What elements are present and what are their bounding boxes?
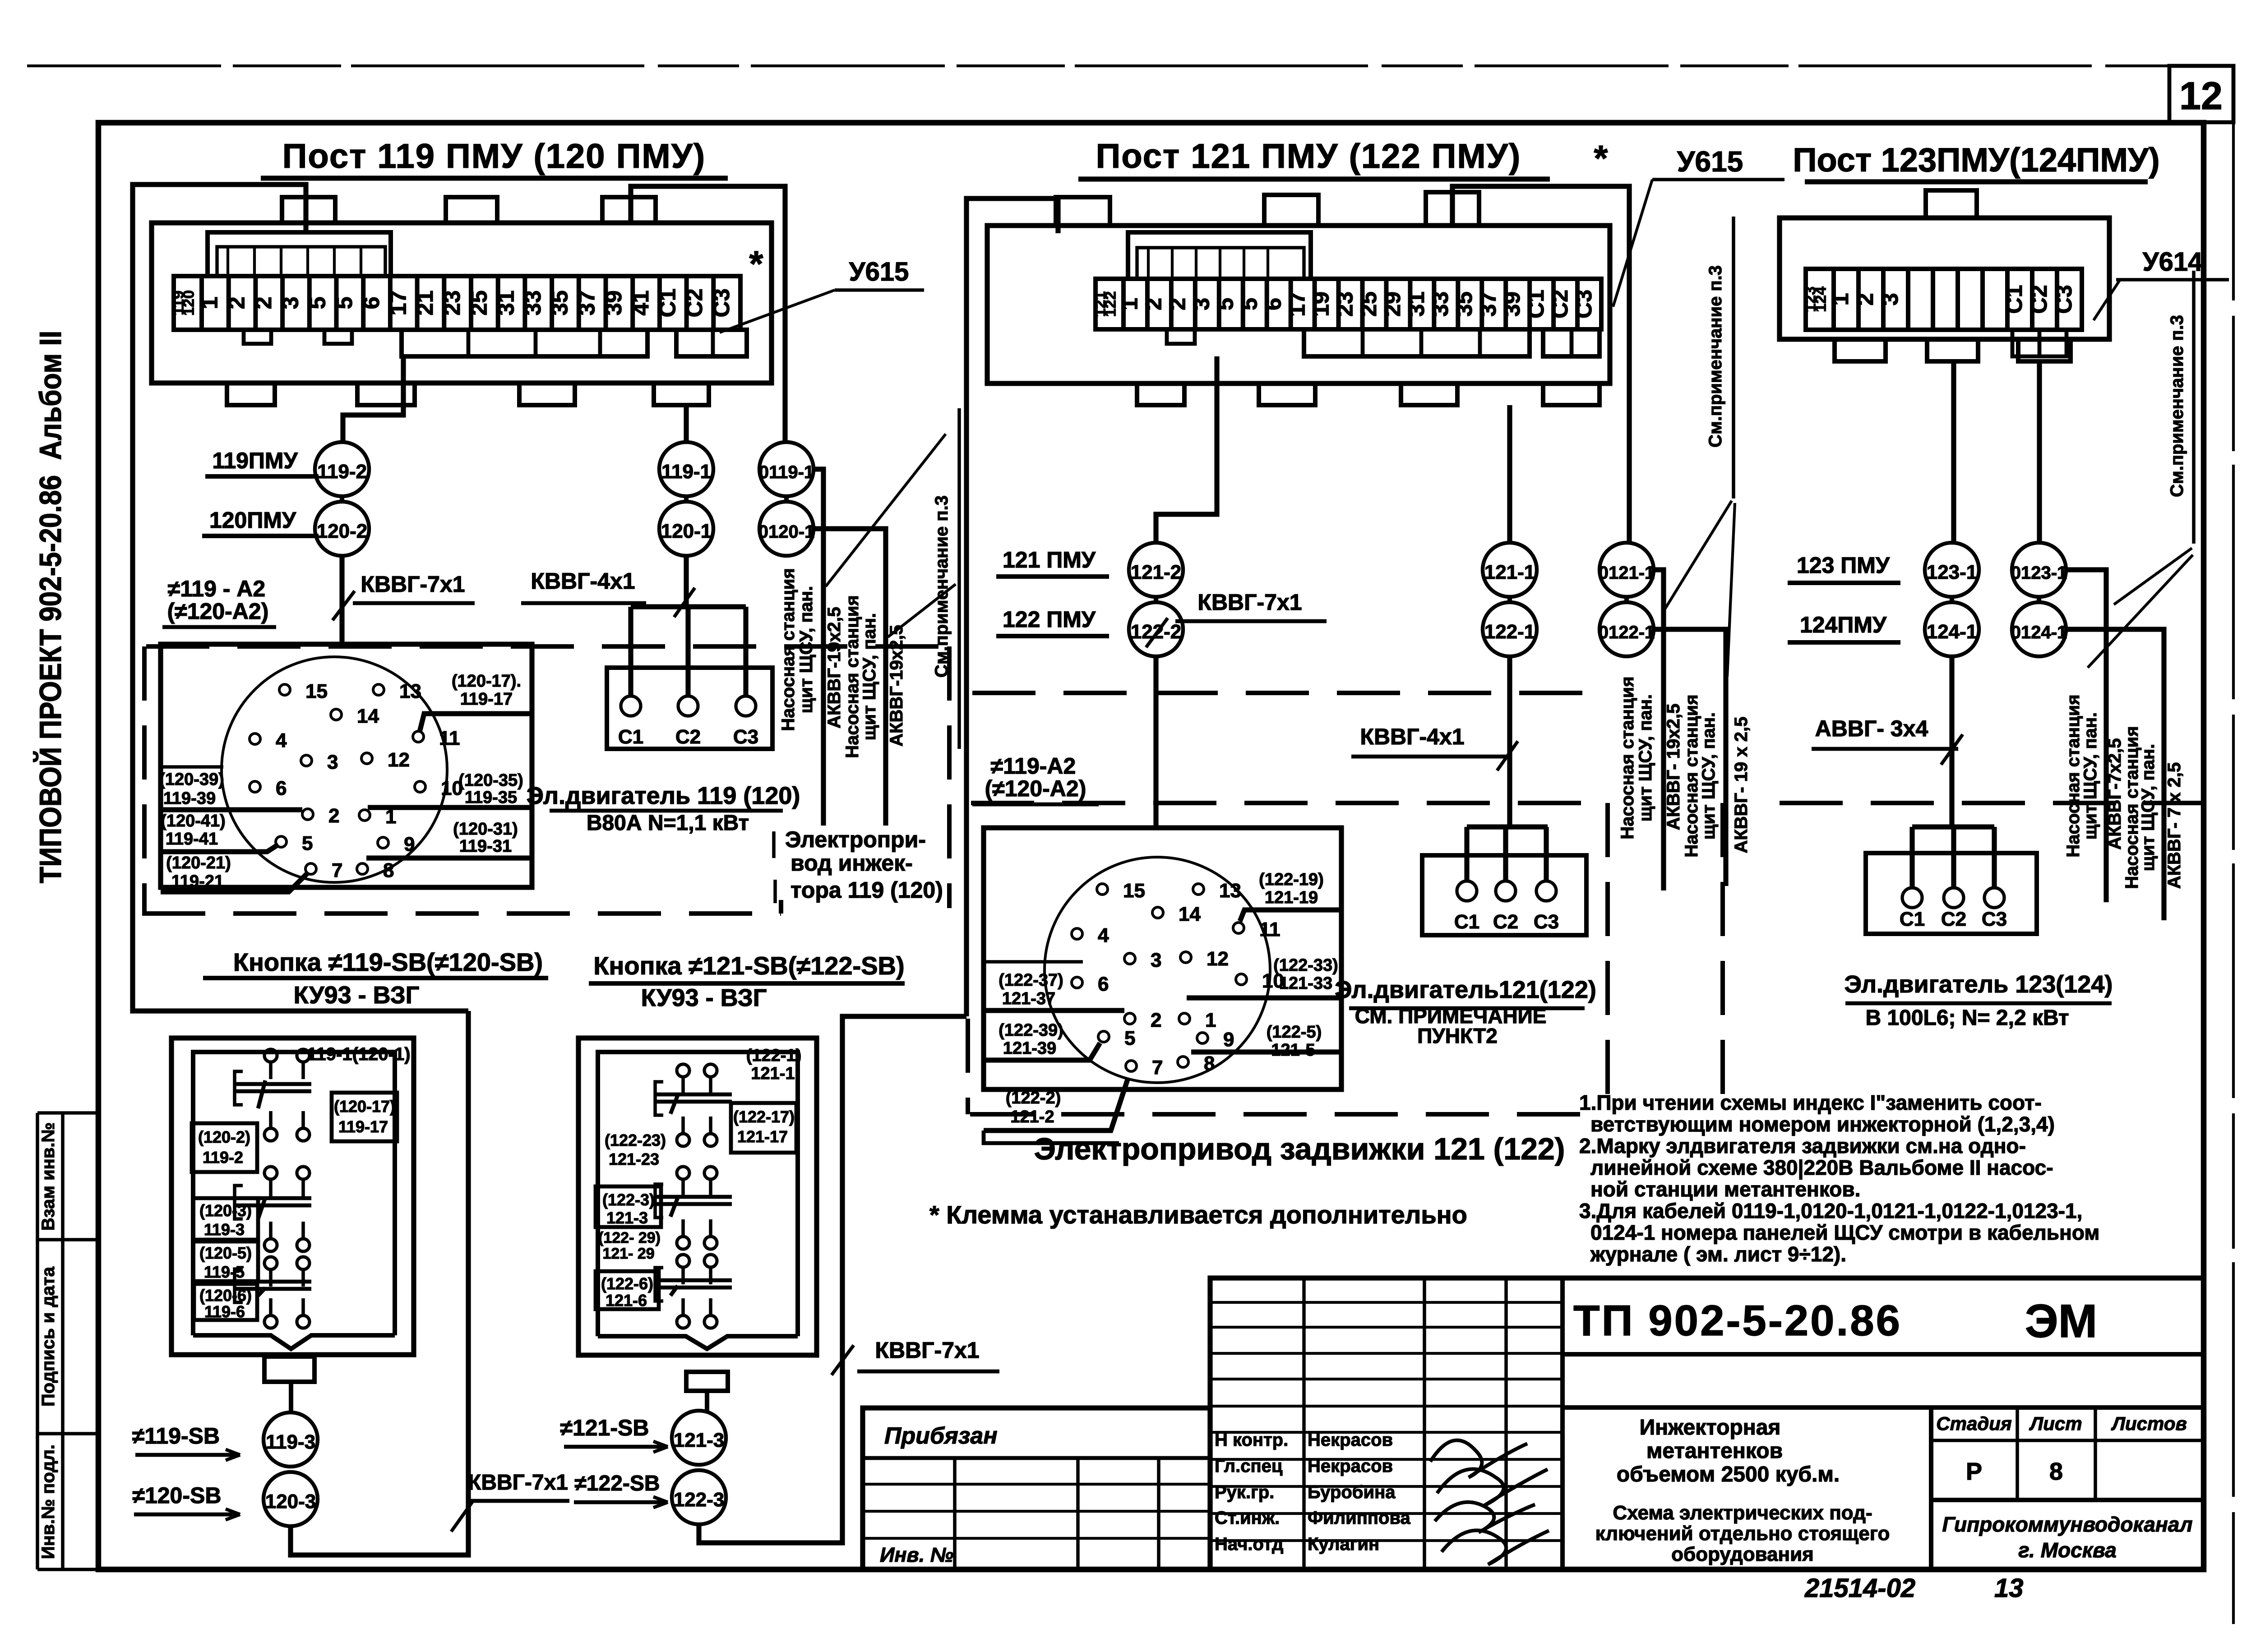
svg-text:119-1: 119-1: [661, 461, 711, 483]
button box mid funnel: [598, 1336, 798, 1349]
svg-text:35: 35: [547, 291, 573, 316]
svg-text:4: 4: [1098, 924, 1109, 946]
svg-text:щит ЩСУ, пан.: щит ЩСУ, пан.: [860, 613, 879, 740]
label U615 left underline: [835, 288, 924, 292]
svg-text:124: 124: [1812, 286, 1830, 312]
svg-text:(120-41): (120-41): [161, 812, 226, 831]
rot rule left 2: [884, 529, 888, 826]
svg-text:29: 29: [1380, 291, 1405, 317]
svg-text:1: 1: [197, 297, 222, 309]
wire 120-2 down: [339, 556, 344, 646]
svg-text:3: 3: [1877, 293, 1903, 306]
svg-text:12: 12: [388, 749, 410, 771]
svg-text:120-2: 120-2: [317, 520, 368, 542]
svg-text:(122-33): (122-33): [1273, 956, 1338, 975]
svg-text:6: 6: [1098, 973, 1109, 995]
svg-text:С1: С1: [1900, 908, 1925, 930]
svg-text:Инв.№ подл.: Инв.№ подл.: [38, 1444, 58, 1559]
svg-text:13: 13: [399, 680, 421, 702]
wire 0119-1 right: [814, 469, 823, 826]
rot rule left 1: [822, 492, 826, 826]
svg-text:2: 2: [1151, 1009, 1161, 1031]
svg-text:Схема электрических под-: Схема электрических под-: [1613, 1502, 1872, 1524]
button box left funnel: [193, 1335, 395, 1349]
svg-text:21514-02: 21514-02: [1804, 1574, 1915, 1603]
svg-text:Пост 121 ПМУ (122 ПМУ): Пост 121 ПМУ (122 ПМУ): [1096, 137, 1521, 175]
svg-text:123-1: 123-1: [1927, 561, 1978, 583]
wire 0121-0122 stub: [1624, 597, 1629, 602]
svg-text:АКВВГ-19х2,5: АКВВГ-19х2,5: [824, 607, 844, 728]
svg-text:КВВГ-4х1: КВВГ-4х1: [531, 568, 635, 594]
circle 0124-1: [2012, 602, 2066, 656]
svg-text:14: 14: [1179, 903, 1201, 925]
svg-text:С3: С3: [1534, 911, 1559, 933]
circle 122-2: [1129, 602, 1183, 656]
svg-text:9: 9: [404, 833, 415, 855]
dashed boundary right left-vert: [1720, 803, 1725, 1117]
svg-text:2: 2: [1141, 298, 1166, 310]
svg-text:щит ЩСУ, пан.: щит ЩСУ, пан.: [2080, 712, 2100, 840]
wire bus left: [631, 604, 746, 609]
dashed boundary right wall: [1780, 801, 2204, 805]
title block verticals: [1302, 1278, 1306, 1569]
svg-text:Кнопка ≠121-SB(≠122-SB): Кнопка ≠121-SB(≠122-SB): [593, 951, 904, 980]
bracket row mid A: [1304, 329, 1530, 356]
bracket row mid B: [1543, 329, 1600, 356]
tab above left 3: [602, 197, 656, 223]
svg-text:Кулагин: Кулагин: [1308, 1534, 1379, 1554]
wire to 121-2: [1156, 356, 1217, 543]
contact group L3: [264, 1257, 277, 1269]
label box 121-17k: [731, 1103, 796, 1153]
svg-text:0124-1 номера панелей ЩСУ смо: 0124-1 номера панелей ЩСУ смотри в кабел…: [1590, 1221, 2099, 1244]
button left foot: [264, 1357, 314, 1382]
stub 121-1 122-1: [1507, 597, 1512, 602]
label box 119-17k: [332, 1093, 397, 1141]
svg-text:ной станции метантенков.: ной станции метантенков.: [1590, 1177, 1860, 1201]
svg-text:35: 35: [1452, 291, 1477, 317]
svg-text:Пост 119 ПМУ (120 ПМУ): Пост 119 ПМУ (120 ПМУ): [282, 137, 706, 175]
svg-text:14: 14: [357, 705, 379, 727]
svg-text:(≠120-А2): (≠120-А2): [985, 776, 1086, 801]
svg-text:метантенков: метантенков: [1646, 1439, 1783, 1463]
svg-text:121-23: 121-23: [609, 1150, 659, 1168]
svg-text:АВВГ- 3х4: АВВГ- 3х4: [1815, 716, 1928, 741]
svg-text:≠122-SB: ≠122-SB: [574, 1472, 660, 1495]
svg-text:0120-1: 0120-1: [758, 522, 815, 542]
svg-text:*: *: [1594, 138, 1608, 178]
svg-text:121-1: 121-1: [1484, 561, 1535, 583]
circle 119-2: [315, 442, 369, 496]
svg-text:объемом 2500 куб.м.: объемом 2500 куб.м.: [1617, 1463, 1840, 1486]
foot left 3: [519, 383, 575, 405]
rot rule sm right: [2192, 271, 2196, 544]
label knopka 121 underline: [589, 981, 905, 986]
svg-text:КВВГ-7х1: КВВГ-7х1: [875, 1338, 979, 1363]
wire 122-3 bottom: [699, 1016, 966, 1543]
circle 121-3: [672, 1411, 726, 1465]
svg-text:КУ93 - ВЗГ: КУ93 - ВЗГ: [641, 984, 767, 1011]
svg-text:≠119 - А2: ≠119 - А2: [168, 576, 265, 601]
svg-text:Листов: Листов: [2111, 1413, 2187, 1434]
motor terminal C2 right: [1944, 888, 1964, 908]
svg-text:122-1: 122-1: [1484, 621, 1535, 643]
wire 119-2 to 120-2: [340, 496, 344, 502]
circle 120-1: [659, 502, 713, 556]
terminal strip X1 mid: [1096, 279, 1601, 329]
stub 0123-1 0124-1: [2037, 597, 2041, 602]
small tab below cell5: [324, 330, 352, 344]
svg-text:5: 5: [1124, 1027, 1135, 1049]
circle 124-1: [1925, 602, 1979, 656]
rot rule mid 1: [1662, 570, 1666, 891]
svg-text:Ст.инж.: Ст.инж.: [1215, 1508, 1280, 1528]
jumper box left outer: [208, 232, 391, 276]
bracket row left B: [676, 330, 747, 356]
foot right 1: [1835, 339, 1886, 361]
svg-text:122-3: 122-3: [674, 1489, 725, 1511]
svg-text:вод инжек-: вод инжек-: [791, 850, 913, 876]
svg-text:ветствующим номером инжекторн: ветствующим номером инжекторной (1,2,3,4…: [1590, 1112, 2055, 1136]
tab above mid 2: [1426, 192, 1479, 226]
svg-text:Пост 123ПМУ(124ПМУ): Пост 123ПМУ(124ПМУ): [1793, 141, 2159, 179]
svg-text:120: 120: [180, 290, 198, 316]
svg-text:119-17: 119-17: [460, 690, 513, 709]
dashed boundary left right-vert: [947, 646, 952, 908]
svg-text:С2: С2: [2026, 285, 2052, 314]
contact group M2: [677, 1167, 689, 1179]
title signatures: [1430, 1440, 1549, 1564]
svg-text:119-31: 119-31: [459, 837, 512, 856]
wire 120-3 bottom: [291, 1011, 468, 1555]
rot rule sm mid: [1732, 217, 1735, 498]
svg-text:37: 37: [1475, 291, 1501, 317]
svg-text:121-17: 121-17: [737, 1127, 788, 1146]
svg-text:Лист: Лист: [2029, 1413, 2082, 1434]
svg-text:121-37: 121-37: [1002, 989, 1055, 1008]
svg-text:ключений отдельно стоящего: ключений отдельно стоящего: [1595, 1523, 1890, 1545]
svg-text:121 ПМУ: 121 ПМУ: [1003, 547, 1096, 572]
wire C-left: [684, 405, 689, 442]
heading post 121 underline: [1078, 176, 1550, 181]
title TP box divider: [1563, 1352, 2204, 1357]
svg-text:119ПМУ: 119ПМУ: [212, 448, 298, 473]
arrow 122-SB: [653, 1497, 668, 1502]
svg-text:ТП 902-5-20.86: ТП 902-5-20.86: [1573, 1297, 1902, 1345]
svg-text:123 ПМУ: 123 ПМУ: [1797, 553, 1890, 578]
svg-text:(122-2): (122-2): [1006, 1089, 1061, 1107]
svg-text:122 ПМУ: 122 ПМУ: [1003, 607, 1096, 632]
sm leader left 2: [888, 584, 956, 637]
svg-text:(120-2): (120-2): [198, 1128, 250, 1146]
sheet outer border top: [27, 65, 2233, 67]
svg-text:121-2: 121-2: [1010, 1107, 1054, 1126]
svg-text:124-1: 124-1: [1927, 621, 1978, 643]
connector box mid: [984, 828, 1341, 1089]
svg-text:С1: С1: [2002, 285, 2027, 314]
svg-text:121-33: 121-33: [1279, 974, 1332, 993]
svg-text:Подпись и дата: Подпись и дата: [38, 1266, 58, 1407]
svg-text:4: 4: [276, 729, 287, 752]
sm leader mid 2: [1727, 503, 1735, 677]
svg-text:0124-1: 0124-1: [2011, 623, 2067, 642]
svg-text:5: 5: [332, 297, 357, 309]
contact group L1: [264, 1049, 277, 1062]
svg-text:5: 5: [305, 297, 330, 309]
svg-text:(122-23): (122-23): [605, 1131, 666, 1149]
circle 0121-1: [1600, 543, 1654, 597]
svg-text:31: 31: [493, 291, 518, 316]
svg-text:КВВГ-7х1: КВВГ-7х1: [468, 1471, 568, 1495]
wire foot to 121-3: [705, 1391, 709, 1411]
circle 119-3: [264, 1412, 318, 1467]
svg-text:оборудования: оборудования: [1671, 1543, 1814, 1565]
svg-text:щит ЩСУ, пан.: щит ЩСУ, пан.: [2138, 744, 2158, 871]
svg-text:0119-1: 0119-1: [759, 462, 814, 482]
svg-text:Прибязан: Прибязан: [884, 1423, 998, 1449]
svg-text:2.Марку элдвигателя задвижки: 2.Марку элдвигателя задвижки см.на одно-: [1579, 1134, 2026, 1158]
motor terminal C3 left: [736, 696, 756, 716]
wire bus mid: [1467, 824, 1548, 829]
sm leader right 1: [2114, 548, 2192, 605]
svg-text:121-6: 121-6: [606, 1291, 647, 1310]
connector pins left: [279, 684, 290, 695]
svg-text:5: 5: [1236, 298, 1262, 310]
svg-text:11: 11: [1259, 918, 1281, 941]
wire 120-1 down: [684, 556, 689, 607]
svg-text:1: 1: [1828, 293, 1853, 306]
svg-text:119-2: 119-2: [203, 1148, 243, 1167]
svg-text:У615: У615: [849, 257, 909, 286]
dashed boundary mid wall: [971, 801, 1608, 805]
arrow 119-SB: [226, 1449, 240, 1455]
svg-text:линейной схеме 380|220В Вал: линейной схеме 380|220В Вальбоме II насо…: [1590, 1156, 2053, 1179]
svg-text:АКВВГ-19х2,5: АКВВГ-19х2,5: [887, 625, 906, 746]
svg-text:Буробина: Буробина: [1308, 1482, 1396, 1502]
svg-text:31: 31: [1404, 291, 1429, 317]
sm leader mid 1: [1665, 501, 1732, 609]
wire 0120-1 right: [814, 529, 886, 826]
title block outer: [1210, 1278, 2204, 1569]
svg-text:5: 5: [1213, 298, 1238, 310]
svg-text:С1: С1: [618, 726, 643, 748]
svg-text:33: 33: [1428, 291, 1453, 317]
pribyazan grid: [863, 1456, 1210, 1460]
terminal strip X1 left: [174, 276, 740, 330]
foot mid 4: [1543, 383, 1600, 405]
motor box mid: [1422, 855, 1586, 935]
svg-text:119-3: 119-3: [266, 1431, 315, 1453]
svg-text:См.применчание п.3: См.применчание п.3: [932, 495, 952, 678]
jumper under right C: [2012, 330, 2066, 356]
svg-text:≠120-SB: ≠120-SB: [133, 1483, 222, 1508]
svg-text:17: 17: [1284, 291, 1309, 317]
svg-text:Некрасов: Некрасов: [1308, 1430, 1393, 1450]
svg-text:Инв. №: Инв. №: [880, 1543, 953, 1566]
svg-text:См.применчание п.3: См.применчание п.3: [1706, 265, 1725, 448]
dashed boundary mid left-vert: [966, 1019, 970, 1114]
svg-text:АКВВГ- 19х2,5: АКВВГ- 19х2,5: [1664, 704, 1683, 831]
pribyazan box: [863, 1408, 1210, 1569]
button box left inner: [193, 1052, 395, 1335]
svg-text:С3: С3: [733, 726, 758, 748]
svg-text:АКВВГ- 7 х 2,5: АКВВГ- 7 х 2,5: [2164, 762, 2184, 889]
circle 120-2: [315, 502, 369, 556]
circle 120-3: [264, 1472, 318, 1526]
svg-text:КВВГ-7х1: КВВГ-7х1: [361, 572, 465, 597]
dashed boundary mid top: [972, 691, 1608, 695]
svg-text:121- 29: 121- 29: [602, 1245, 654, 1262]
svg-text:(122-17): (122-17): [733, 1107, 795, 1126]
svg-text:121-2: 121-2: [1131, 561, 1182, 583]
wire to 119-2: [343, 356, 403, 442]
label box 121-6k: [596, 1271, 659, 1309]
circle 121-1: [1483, 543, 1537, 597]
motor terminal C1 mid: [1457, 881, 1477, 901]
svg-text:9: 9: [1223, 1029, 1234, 1051]
svg-text:С2: С2: [1493, 911, 1518, 933]
arrow 121-SB: [653, 1441, 668, 1447]
label knopka 119 underline: [203, 976, 548, 980]
heading post 119 underline: [261, 175, 728, 180]
title block left grid: [1210, 1301, 1563, 1304]
label U614 underline: [2116, 278, 2229, 281]
small tab below cell2: [244, 330, 271, 344]
svg-text:(120-17).: (120-17).: [452, 672, 521, 691]
svg-text:щит ЩСУ, пан.: щит ЩСУ, пан.: [1699, 712, 1719, 840]
wire right A: [1951, 361, 1956, 543]
svg-text:С3: С3: [1571, 290, 1596, 318]
label U615 mid underline: [1652, 178, 1784, 181]
svg-text:6: 6: [276, 777, 287, 799]
svg-text:19: 19: [1308, 291, 1333, 317]
tab above mid 1: [1264, 195, 1318, 226]
terminal strip left box inner: [152, 223, 772, 383]
svg-text:(120-35): (120-35): [458, 771, 523, 790]
svg-text:С2: С2: [682, 289, 707, 318]
label box 119-5k: [193, 1241, 258, 1281]
svg-text:(122- 29): (122- 29): [598, 1229, 661, 1246]
svg-text:С1: С1: [1523, 290, 1549, 318]
dashed boundary left bottom: [142, 911, 781, 916]
motor terminal C1 left: [621, 696, 641, 716]
svg-text:7: 7: [332, 859, 342, 881]
circle 0119-1: [759, 442, 814, 496]
page number box: [2169, 66, 2233, 122]
label box 119-6k: [194, 1284, 257, 1320]
svg-text:0123-1: 0123-1: [2011, 563, 2067, 583]
wire foot to 119-3: [289, 1382, 293, 1412]
connector circle mid: [1045, 857, 1270, 1083]
contact group M1: [677, 1064, 689, 1077]
svg-text:0121-1: 0121-1: [1599, 563, 1655, 583]
svg-text:ПУНКТ2: ПУНКТ2: [1417, 1024, 1498, 1047]
svg-text:13: 13: [1994, 1574, 2024, 1603]
svg-text:12: 12: [1207, 948, 1229, 970]
svg-text:У615: У615: [1677, 145, 1743, 178]
svg-text:23: 23: [1332, 291, 1357, 317]
svg-text:11: 11: [439, 727, 460, 749]
svg-text:8: 8: [1204, 1052, 1215, 1075]
circle 122-1: [1483, 602, 1537, 656]
svg-text:С3: С3: [1982, 908, 2007, 930]
stub 119-1 120-1: [684, 496, 689, 502]
svg-text:119-17: 119-17: [338, 1117, 388, 1136]
pin label lines lb: [161, 765, 223, 769]
foot mid 2: [1259, 383, 1315, 405]
wire 0124-1 right: [2066, 629, 2164, 920]
svg-text:тора 119 (120): тора 119 (120): [791, 877, 943, 903]
connector box left: [161, 644, 532, 887]
motor box left: [607, 668, 772, 749]
svg-text:3: 3: [278, 297, 303, 309]
svg-text:2: 2: [1853, 293, 1878, 306]
svg-text:41: 41: [628, 291, 653, 316]
label box 119-2k: [192, 1123, 257, 1172]
svg-text:39: 39: [1499, 291, 1525, 317]
jumper box mid outer: [1128, 232, 1311, 279]
svg-text:Стадия: Стадия: [1936, 1413, 2011, 1434]
terminal strip mid box inner: [987, 226, 1610, 383]
svg-text:33: 33: [520, 291, 546, 316]
svg-text:С1: С1: [655, 289, 680, 318]
motor box right: [1866, 853, 2037, 934]
svg-text:В80А N=1,1 кВт: В80А N=1,1 кВт: [587, 811, 749, 835]
svg-text:(122-5): (122-5): [1267, 1023, 1322, 1042]
svg-text:119-41: 119-41: [166, 830, 218, 849]
svg-text:Эл.двигатель 119 (120): Эл.двигатель 119 (120): [527, 782, 800, 809]
svg-text:С2: С2: [1547, 290, 1572, 318]
svg-text:С2: С2: [675, 726, 701, 748]
svg-text:г. Москва: г. Москва: [2018, 1538, 2117, 1562]
svg-text:8: 8: [383, 859, 394, 881]
circle 119-1: [659, 442, 713, 496]
svg-text:8: 8: [2049, 1458, 2063, 1485]
svg-text:12: 12: [2179, 74, 2223, 118]
svg-text:щит ЩСУ, пан.: щит ЩСУ, пан.: [796, 586, 816, 713]
svg-text:Насосная станция: Насосная станция: [1618, 676, 1637, 839]
dashed boundary mid right-vert: [1605, 803, 1610, 1114]
stub 123-1 124-1: [1950, 597, 1954, 602]
wire 124-1 down: [1949, 656, 1954, 827]
connector pins mid: [1097, 884, 1108, 895]
svg-text:3: 3: [327, 751, 338, 773]
stamp column lines: [36, 1113, 39, 1569]
dashed boundary mid bottom: [970, 1112, 1606, 1117]
svg-text:Р: Р: [1966, 1458, 1982, 1485]
svg-text:ЭМ: ЭМ: [2025, 1295, 2098, 1347]
pin label lines mid lb: [984, 960, 1083, 964]
svg-text:119-3: 119-3: [204, 1220, 245, 1239]
rot rule mid 2: [1724, 629, 1728, 886]
svg-text:6: 6: [1260, 298, 1285, 310]
svg-text:25: 25: [467, 291, 492, 316]
svg-text:С1: С1: [1454, 911, 1479, 933]
svg-text:≠121-SB: ≠121-SB: [560, 1415, 649, 1440]
svg-text:КВВГ-7х1: КВВГ-7х1: [1197, 590, 1302, 615]
svg-text:2: 2: [328, 805, 339, 827]
svg-text:См.применчание п.3: См.применчание п.3: [2167, 315, 2187, 497]
svg-text:(120-3): (120-3): [199, 1201, 252, 1220]
svg-text:119-35: 119-35: [465, 788, 517, 807]
stub 121-2 122-2: [1154, 597, 1158, 602]
svg-text:2: 2: [251, 297, 276, 309]
svg-text:щит ЩСУ, пан.: щит ЩСУ, пан.: [1636, 694, 1655, 821]
svg-text:0122-1: 0122-1: [1599, 623, 1655, 642]
dashed boundary left vert: [142, 646, 147, 914]
label box 119-3k: [193, 1198, 258, 1240]
wire right B: [2037, 361, 2042, 543]
